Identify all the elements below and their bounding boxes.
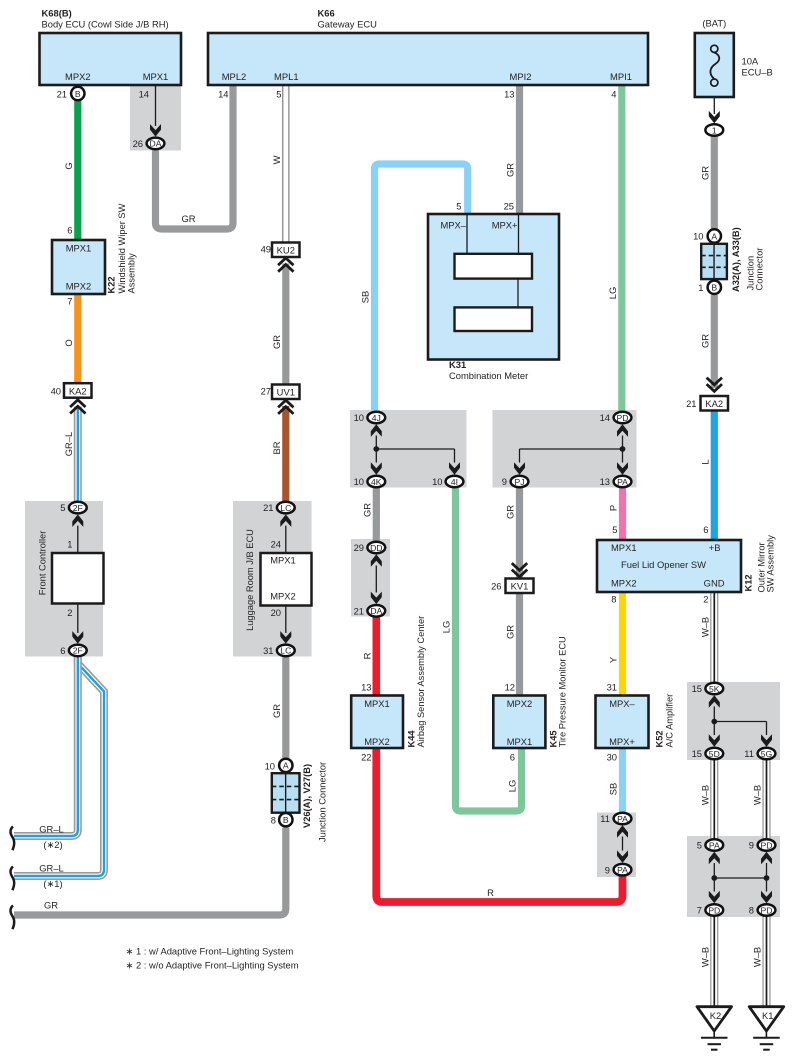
arrow into LC top: [280, 514, 291, 527]
wire R : DA to K44 MPX1: [362, 617, 377, 696]
arrow into PJ: [514, 462, 525, 475]
svg-text:10: 10: [693, 231, 703, 242]
svg-text:ECU–B: ECU–B: [742, 67, 773, 78]
svg-text:O: O: [63, 339, 74, 346]
svg-text:9: 9: [502, 476, 507, 487]
svg-text:Body ECU (Cowl Side J/B RH): Body ECU (Cowl Side J/B RH): [42, 19, 169, 30]
wire GR : junction B to connector KA2: [700, 295, 715, 388]
connector pin 21 LC: [263, 502, 295, 514]
svg-text:MPX2: MPX2: [270, 591, 296, 602]
svg-text:A: A: [711, 231, 717, 241]
svg-text:6: 6: [510, 752, 515, 763]
svg-text:R: R: [362, 652, 373, 659]
svg-text:PD: PD: [761, 840, 773, 850]
wire W-B : K12 GND down to 5K: [700, 592, 715, 683]
connector pin 5 PA: [697, 839, 723, 851]
svg-text:(∗1): (∗1): [43, 878, 62, 889]
svg-text:26: 26: [133, 138, 143, 149]
svg-text:5D: 5D: [709, 749, 720, 759]
svg-text:Airbag Sensor Assembly Center: Airbag Sensor Assembly Center: [416, 616, 426, 748]
svg-text:4K: 4K: [371, 477, 382, 487]
arrow into 8 PD: [761, 891, 772, 904]
connector pin 9 PD: [749, 839, 776, 851]
svg-text:2F: 2F: [73, 646, 83, 656]
wire GR : KU2 to UV1: [271, 264, 286, 386]
svg-text:5: 5: [60, 502, 65, 513]
svg-text:6: 6: [60, 645, 65, 656]
svg-text:10: 10: [265, 761, 275, 772]
svg-text:25: 25: [504, 201, 514, 212]
footnote 1: [126, 946, 294, 957]
ECU K66 Gateway ECU: [208, 8, 648, 100]
svg-text:MPI1: MPI1: [610, 71, 632, 82]
arrow into LC bottom: [280, 631, 291, 644]
arrow into PD: [617, 424, 628, 437]
svg-text:15: 15: [692, 748, 702, 759]
arrow into 2F top: [72, 514, 83, 527]
svg-text:+B: +B: [709, 542, 721, 553]
svg-text:MPX1: MPX1: [66, 243, 92, 254]
shade connector block PD/PJ/PA: [493, 410, 637, 488]
svg-text:20: 20: [271, 607, 281, 618]
wire Y : K12 MPX2 to K52 MPX-: [608, 592, 623, 696]
wire W-B : 5D down to PA: [700, 760, 715, 839]
svg-text:1: 1: [67, 539, 72, 550]
svg-text:DD: DD: [370, 543, 382, 553]
svg-text:K52: K52: [655, 730, 665, 747]
svg-text:W–B: W–B: [700, 617, 711, 637]
svg-text:MPX–: MPX–: [609, 698, 635, 709]
svg-text:PD: PD: [761, 905, 773, 915]
svg-text:G: G: [63, 162, 74, 169]
svg-text:SW Assembly: SW Assembly: [766, 535, 776, 593]
svg-text:10A: 10A: [742, 56, 759, 67]
connector 26 DA below K68 MPX1: [133, 85, 165, 149]
wire W-B : 5G down to 9PD: [752, 760, 767, 839]
wire GR : junction V26 B to left break: [14, 828, 286, 916]
wire pin 20 out of Luggage Room ECU: [271, 606, 286, 634]
arrow into 5G: [761, 734, 772, 747]
ECU K31 Combination Meter: [428, 201, 559, 382]
arrow into 5 PA: [709, 852, 720, 865]
svg-text:DA: DA: [370, 606, 382, 616]
connector pin 8 PD: [749, 904, 776, 916]
svg-text:Front Controller: Front Controller: [38, 531, 48, 596]
svg-text:K31: K31: [449, 359, 466, 370]
svg-text:Fuel Lid Opener SW: Fuel Lid Opener SW: [621, 559, 706, 570]
svg-text:10: 10: [432, 476, 442, 487]
wire break squiggle GR-L *1: [11, 867, 15, 891]
svg-text:∗ 2 : w/o Adaptive Front–Light: ∗ 2 : w/o Adaptive Front–Lighting System: [126, 960, 299, 971]
svg-text:∗ 1 : w/ Adaptive Front–Lighti: ∗ 1 : w/ Adaptive Front–Lighting System: [126, 946, 294, 957]
svg-text:Connector: Connector: [755, 248, 765, 291]
connector pin 29 DD: [354, 542, 386, 554]
junction connector A32(A) A33(B) circle B: [698, 281, 721, 294]
svg-text:LG: LG: [607, 287, 618, 300]
svg-text:P: P: [608, 505, 619, 511]
svg-text:30: 30: [607, 752, 617, 763]
shade connector block 11PA/9PA: [597, 813, 636, 878]
shade connector block 4J/4K/4I: [350, 410, 467, 488]
wire link DD to DA: [375, 566, 377, 593]
svg-text:K66: K66: [318, 8, 335, 19]
svg-text:11: 11: [744, 748, 754, 759]
arrow into 5K: [709, 695, 720, 708]
connector pin 10 4I: [432, 476, 463, 488]
svg-text:PA: PA: [617, 814, 628, 824]
wire LG : K66 MPI1 to connector PD: [607, 85, 622, 411]
svg-text:GR: GR: [44, 900, 58, 911]
connector pin 5 2F: [60, 502, 86, 514]
svg-text:PD: PD: [617, 413, 629, 423]
connector pin 9 PJ: [502, 476, 529, 488]
wire W : K66 MPL1 to connector KU2: [271, 85, 286, 243]
svg-text:LG: LG: [507, 780, 518, 793]
svg-text:Junction Connector: Junction Connector: [317, 762, 327, 842]
svg-text:21: 21: [263, 502, 273, 513]
wire link to PJ: [520, 449, 623, 463]
connector 21 B below K68 MPX2: [57, 87, 85, 100]
ground K1: [749, 1007, 784, 1050]
junction dot: [711, 719, 717, 725]
svg-text:4J: 4J: [372, 413, 381, 423]
junction dot: [620, 446, 626, 452]
svg-text:MPX–: MPX–: [440, 220, 466, 231]
Front Controller inner unit box: [38, 531, 104, 604]
arrow into 9 PD: [761, 852, 772, 865]
svg-text:GR: GR: [181, 213, 195, 224]
wire BR : UV1 to Luggage Room LC: [271, 406, 286, 502]
svg-text:KV1: KV1: [511, 581, 529, 592]
arrow into 4I: [449, 462, 460, 475]
svg-text:K22: K22: [107, 276, 117, 293]
shade Front Controller: [25, 501, 103, 657]
wire SB : K52 MPX+ to connector 11PA: [608, 748, 623, 813]
shade Luggage Room J/B ECU: [233, 501, 312, 657]
svg-text:LC: LC: [280, 646, 291, 656]
wire GR : PJ to KV1: [505, 488, 520, 578]
SW Assembly K22 Windshield Wiper: [52, 203, 137, 306]
connector 40 KA2 (wire to wire): [51, 383, 92, 413]
svg-text:MPL1: MPL1: [274, 71, 299, 82]
wire GR : Luggage Room LC to junction V26 A: [271, 657, 286, 758]
svg-text:R: R: [487, 887, 494, 898]
svg-text:40: 40: [51, 386, 61, 397]
svg-text:Tire Pressure Monitor ECU: Tire Pressure Monitor ECU: [558, 636, 568, 747]
connector oval 1: [705, 124, 723, 136]
Luggage Room J/B ECU inner unit box MPX1/MPX2: [245, 529, 312, 631]
svg-text:5: 5: [276, 89, 281, 100]
svg-text:GR: GR: [505, 505, 516, 519]
connector pin 21 DA: [354, 605, 386, 617]
wire link to 5G: [714, 722, 766, 736]
connector pin 13 PA: [600, 476, 632, 488]
svg-text:MPI2: MPI2: [510, 71, 532, 82]
svg-text:MPX2: MPX2: [65, 71, 91, 82]
svg-text:2F: 2F: [73, 503, 83, 513]
wire GR-L (*1) : connector 2F branch right: [14, 657, 104, 889]
svg-text:B: B: [711, 283, 717, 293]
wire link between dots: [714, 877, 766, 879]
svg-text:A: A: [283, 761, 289, 771]
svg-text:13: 13: [504, 89, 514, 100]
svg-text:10: 10: [354, 476, 364, 487]
svg-text:MPX1: MPX1: [364, 698, 390, 709]
svg-text:MPL2: MPL2: [222, 71, 247, 82]
junction connector V26(A) V27(B) circle A: [265, 759, 293, 772]
wire GR : K66 MPL2 to junction DA: [156, 85, 234, 229]
wire GR : 4K to DD: [362, 488, 377, 541]
svg-text:13: 13: [600, 476, 610, 487]
svg-text:LC: LC: [280, 503, 291, 513]
svg-text:B: B: [75, 89, 81, 99]
arrow into 4K: [371, 462, 382, 475]
svg-text:GR: GR: [271, 335, 282, 349]
svg-text:L: L: [700, 459, 711, 464]
svg-text:6: 6: [67, 225, 72, 236]
svg-text:29: 29: [354, 542, 364, 553]
svg-text:27: 27: [261, 386, 271, 397]
arrow into DD: [371, 554, 382, 567]
junction connector A32(A) A33(B) circle A: [693, 229, 721, 242]
svg-text:1: 1: [712, 125, 717, 135]
switch K12 Fuel Lid Opener SW: [597, 524, 776, 605]
svg-text:MPX1: MPX1: [507, 736, 533, 747]
svg-text:V26(A), V27(B): V26(A), V27(B): [302, 764, 312, 828]
svg-text:LG: LG: [441, 621, 452, 634]
svg-text:SB: SB: [608, 783, 619, 796]
connector pin 11 PA: [600, 813, 631, 825]
junction connector V26(A) V27(B) grid: [272, 762, 328, 842]
svg-text:Combination Meter: Combination Meter: [449, 370, 528, 381]
fuse 10A ECU-B (BAT): [695, 18, 773, 98]
svg-text:5G: 5G: [761, 749, 773, 759]
svg-text:(BAT): (BAT): [702, 18, 726, 29]
shade under K68 MPX1 pin 14: [130, 85, 181, 151]
connector pin 10 4K: [354, 476, 386, 488]
svg-text:7: 7: [697, 905, 702, 916]
svg-text:GR–L: GR–L: [39, 823, 64, 834]
svg-text:11: 11: [600, 813, 610, 824]
wire link 4J to 4K: [375, 436, 377, 463]
connector pin 15 5D: [692, 748, 724, 760]
wire GR-L : connector KA2 to connector 2F: [63, 407, 78, 502]
arrow into PA: [617, 462, 628, 475]
svg-text:DA: DA: [150, 139, 162, 149]
arrow into 7 PD: [709, 891, 720, 904]
shade connector block DD/DA: [351, 539, 390, 617]
svg-text:SB: SB: [360, 291, 371, 304]
svg-text:14: 14: [218, 89, 228, 100]
svg-text:Assembly: Assembly: [127, 253, 137, 294]
connector pin 15 5K: [692, 683, 724, 695]
svg-text:1: 1: [698, 282, 703, 293]
svg-text:5: 5: [697, 840, 702, 851]
svg-text:PA: PA: [709, 840, 720, 850]
svg-text:14: 14: [139, 89, 149, 100]
wire break squiggle GR-L *2: [11, 827, 15, 851]
arrow into 2F bottom: [72, 631, 83, 644]
wire : fuse to oval 1 with arrow: [709, 97, 720, 123]
svg-text:MPX1: MPX1: [270, 555, 296, 566]
svg-text:A32(A), A33(B): A32(A), A33(B): [731, 227, 741, 292]
svg-text:KA2: KA2: [69, 385, 87, 396]
svg-text:A/C Amplifier: A/C Amplifier: [665, 694, 675, 748]
svg-text:31: 31: [607, 682, 617, 693]
ECU K52 A/C Amplifier: [596, 682, 675, 763]
svg-text:MPX2: MPX2: [364, 736, 390, 747]
connector pin 31 LC: [263, 645, 295, 657]
connector pin 14 PD: [600, 412, 632, 424]
connector 26 KV1 (wire to wire): [491, 563, 533, 593]
ECU K68(B) Body ECU: [40, 8, 182, 100]
svg-text:MPX2: MPX2: [611, 578, 637, 589]
junction connector A32(A) A33(B) grid: [701, 227, 764, 292]
junction dot left: [711, 875, 717, 881]
svg-text:MPX1: MPX1: [611, 542, 637, 553]
svg-text:W–B: W–B: [752, 785, 763, 805]
connector 27 UV1 (wire to wire): [261, 385, 300, 414]
svg-text:GR: GR: [700, 166, 711, 180]
svg-text:UV1: UV1: [277, 387, 295, 398]
junction dot right: [764, 875, 770, 881]
wire O : K22 MPX2 to connector KA2: [63, 294, 78, 384]
svg-text:K68(B): K68(B): [42, 8, 72, 19]
svg-text:GR: GR: [505, 625, 516, 639]
ECU K44 Airbag Sensor Assembly Center: [351, 616, 426, 763]
wire break squiggle GR: [11, 906, 15, 930]
svg-text:2: 2: [703, 594, 708, 605]
arrow into 5D: [709, 734, 720, 747]
svg-text:8: 8: [611, 594, 616, 605]
svg-text:B: B: [283, 815, 289, 825]
svg-text:K12: K12: [744, 574, 754, 591]
svg-text:7: 7: [67, 296, 72, 307]
wire link PD to PA: [622, 436, 624, 463]
wire P : PA to K12 MPX1: [608, 488, 623, 540]
wire W-B : 7PD down to ground K2: [700, 916, 715, 1007]
connector 21 KA2 (wire to wire): [686, 378, 728, 411]
svg-text:12: 12: [505, 682, 515, 693]
wire link to 4I: [376, 449, 454, 463]
shade connector block 5K/5D/5G: [687, 682, 780, 760]
svg-text:31: 31: [263, 645, 273, 656]
svg-text:21: 21: [57, 89, 67, 100]
connector pin 6 2F: [60, 645, 86, 657]
wire link PD to 8PD: [766, 863, 768, 892]
wire GR : KV1 to K45 MPX2: [505, 593, 520, 697]
connector pin 10 4J: [354, 412, 386, 424]
svg-text:Y: Y: [608, 656, 619, 663]
connector pin 7 PD: [697, 904, 723, 916]
wire pin 1 into Front Controller: [67, 526, 78, 553]
svg-text:2: 2: [67, 607, 72, 618]
svg-text:PA: PA: [617, 477, 628, 487]
svg-text:W: W: [271, 155, 282, 164]
svg-text:8: 8: [271, 815, 276, 826]
svg-text:KU2: KU2: [277, 245, 295, 256]
shade connector block PA/PD/7PD/8PD: [687, 836, 780, 917]
svg-text:49: 49: [261, 244, 271, 255]
svg-text:Luggage Room J/B ECU: Luggage Room J/B ECU: [245, 529, 255, 631]
connector pin 9 PA: [605, 864, 632, 876]
svg-text:PD: PD: [708, 905, 720, 915]
svg-text:15: 15: [692, 683, 702, 694]
junction connector V26(A) V27(B) circle B: [271, 813, 293, 826]
svg-text:BR: BR: [271, 441, 282, 454]
svg-text:K1: K1: [762, 1010, 773, 1021]
footnote 2: [126, 960, 299, 971]
svg-text:MPX1: MPX1: [143, 71, 169, 82]
ECU K45 Tire Pressure Monitor ECU: [493, 636, 567, 762]
svg-text:5: 5: [456, 201, 461, 212]
svg-text:24: 24: [271, 539, 281, 550]
wire G : K68 MPX2 to K22 MPX1: [63, 101, 78, 241]
svg-text:GR–L: GR–L: [39, 862, 64, 873]
wire GR : fuse to junction A: [700, 136, 715, 229]
svg-text:9: 9: [749, 840, 754, 851]
svg-text:W–B: W–B: [700, 785, 711, 805]
svg-text:MPX2: MPX2: [507, 698, 533, 709]
ground K2: [697, 1007, 732, 1050]
wire pin 2 out of Front Controller: [67, 604, 78, 634]
svg-text:K44: K44: [407, 730, 417, 748]
junction dot: [373, 446, 379, 452]
svg-text:GND: GND: [704, 578, 725, 589]
svg-text:GR–L: GR–L: [63, 432, 74, 457]
wire GR-L (*2) : connector 2F straight down to left break: [14, 657, 78, 850]
svg-text:6: 6: [703, 524, 708, 535]
wire pin 24 into Luggage Room ECU: [271, 526, 286, 553]
svg-text:GR: GR: [271, 704, 282, 718]
svg-text:Gateway ECU: Gateway ECU: [318, 19, 378, 30]
svg-text:MPX+: MPX+: [492, 220, 518, 231]
wire SB : K31 MPX- to connector 4J: [360, 164, 468, 411]
svg-text:5K: 5K: [709, 684, 720, 694]
svg-text:22: 22: [361, 752, 371, 763]
svg-text:KA2: KA2: [705, 398, 723, 409]
wire R : K44 MPX2 to connector 9PA: [376, 748, 622, 902]
svg-text:5: 5: [612, 524, 617, 535]
svg-text:(∗2): (∗2): [43, 839, 62, 850]
arrow into 9 PA: [617, 850, 628, 863]
arrow into 4J: [371, 424, 382, 437]
svg-text:W–B: W–B: [752, 947, 763, 967]
svg-text:MPX2: MPX2: [66, 281, 92, 292]
wire link 5K to 5D: [713, 707, 715, 736]
arrow into DA: [371, 592, 382, 605]
svg-text:4I: 4I: [451, 477, 458, 487]
svg-text:26: 26: [491, 581, 501, 592]
svg-text:GR: GR: [505, 163, 516, 177]
svg-text:PJ: PJ: [514, 477, 524, 487]
wire link 11PA to 9PA: [622, 837, 624, 851]
svg-text:PA: PA: [617, 865, 628, 875]
svg-text:14: 14: [600, 412, 610, 423]
wire link PA to 7PD: [713, 863, 715, 892]
connector pin 11 5G: [744, 748, 775, 760]
svg-text:9: 9: [605, 865, 610, 876]
wire L : connector KA2 to K12 +B: [700, 411, 715, 541]
svg-text:K2: K2: [710, 1010, 721, 1021]
wire W-B : 8PD down to ground K1: [752, 916, 767, 1007]
wire GR : K66 MPI2 to K31 MPX+: [505, 85, 520, 214]
svg-text:W–B: W–B: [700, 947, 711, 967]
connector 49 KU2 (wire to wire): [261, 243, 300, 272]
svg-text:GR: GR: [362, 503, 373, 517]
wire LG : 4I to K45 MPX1: [441, 488, 522, 811]
svg-text:21: 21: [686, 398, 696, 409]
